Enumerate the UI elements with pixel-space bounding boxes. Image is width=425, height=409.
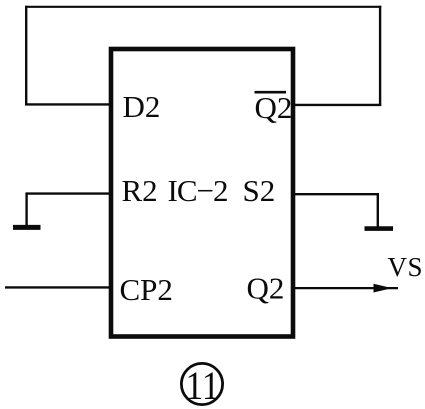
pin label CP2 xyxy=(120,272,173,307)
svg-text:Q2: Q2 xyxy=(247,270,285,305)
IC name label IC-2 xyxy=(168,173,228,208)
ground (left, at R2) xyxy=(13,225,41,230)
wire: R2 horizontal to ground xyxy=(27,192,112,194)
svg-text:CP2: CP2 xyxy=(120,272,173,307)
pin label Q2bar (Q2 with overline) xyxy=(255,90,293,125)
pin label D2 xyxy=(123,89,161,124)
IC U1 (IC-2 flip-flop) body xyxy=(111,49,293,337)
wire: D2 input horizontal xyxy=(25,103,111,105)
svg-text:R2: R2 xyxy=(122,173,158,208)
svg-text:D2: D2 xyxy=(123,89,161,124)
ground (right, at S2) xyxy=(365,226,394,231)
wire: CP2 input horizontal xyxy=(5,286,111,288)
wire: feedback left vertical xyxy=(25,6,27,106)
pin label S2 xyxy=(243,173,276,208)
svg-text:Q2: Q2 xyxy=(255,90,293,125)
wire: Q2bar output horizontal xyxy=(293,104,381,106)
wire: right ground vertical drop xyxy=(377,193,379,227)
pin label R2 xyxy=(122,173,158,208)
wire: S2 horizontal to ground xyxy=(293,193,379,195)
figure number circle (11) xyxy=(181,363,222,408)
svg-text:IC−2: IC−2 xyxy=(168,173,228,208)
svg-text:11: 11 xyxy=(186,363,220,408)
net label VS xyxy=(388,252,424,282)
svg-text:VS: VS xyxy=(388,252,424,282)
svg-text:S2: S2 xyxy=(243,173,276,208)
wire: Q2 output horizontal with arrow xyxy=(293,284,398,293)
wire: left ground vertical drop xyxy=(25,192,27,225)
wire: feedback right vertical xyxy=(379,6,381,106)
pin label Q2 xyxy=(247,270,285,305)
wire: feedback top horizontal xyxy=(25,6,381,8)
